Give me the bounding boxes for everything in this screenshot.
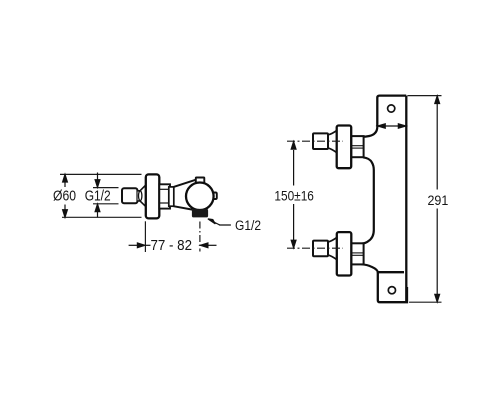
top inlet fitting	[351, 136, 363, 157]
bottom plate hole	[388, 287, 395, 294]
dim 77-82 right arrow	[200, 243, 216, 248]
svg-text:77 - 82: 77 - 82	[151, 238, 193, 254]
right tab	[212, 193, 217, 200]
bottom inlet fitting	[351, 243, 363, 264]
leader arrow to outlet	[208, 219, 231, 225]
top mounting plate	[377, 96, 406, 126]
top tab	[196, 178, 205, 184]
dim Ø60 top arrow	[63, 174, 68, 187]
top flare trumpet	[328, 130, 337, 152]
top escutcheon disc	[337, 126, 352, 169]
stem waist arc	[139, 191, 142, 201]
bottom escutcheon disc	[337, 232, 352, 275]
thermostat face circle	[186, 183, 214, 211]
dim G1/2 bottom extension line	[93, 203, 119, 205]
dim 77-82 left arrow	[129, 243, 151, 248]
dim G1/2 bottom arrow	[95, 204, 100, 217]
outlet (black)	[192, 209, 207, 217]
top fitting facet lines	[352, 145, 363, 147]
dim 291 line upper	[435, 96, 440, 190]
dim Ø60 top extension line	[60, 173, 142, 175]
bar profile above bottom plate	[362, 264, 378, 272]
hex nut facet lines	[160, 188, 170, 190]
handle knob	[122, 188, 137, 203]
bottom wall nut	[313, 241, 328, 257]
bottom mounting plate	[378, 271, 407, 302]
collar	[169, 187, 174, 206]
bottom flare trumpet	[328, 237, 337, 259]
dim 291 line lower	[435, 209, 440, 302]
svg-text:G1/2: G1/2	[85, 188, 111, 204]
dim G1/2 top extension line	[93, 187, 119, 189]
top wall nut	[313, 133, 328, 149]
svg-text:291: 291	[428, 192, 449, 208]
handle stem trumpet	[138, 185, 146, 206]
bar right edge	[405, 96, 407, 303]
escutcheon disc (side view)	[146, 174, 160, 218]
outlet centerline	[199, 222, 201, 252]
top plate hole	[388, 105, 395, 112]
bottom fitting facet lines	[352, 252, 363, 254]
bar profile below top plate	[362, 125, 378, 137]
svg-text:Ø60: Ø60	[53, 189, 76, 205]
dim 150±16 line lower	[291, 204, 296, 248]
dim 291 bottom extension line	[409, 301, 442, 303]
top inlet centerline	[287, 140, 343, 142]
svg-text:G1/2: G1/2	[235, 218, 261, 233]
bottom inlet centerline	[287, 247, 343, 249]
top plate bottom line with arrows	[378, 124, 406, 128]
dim Ø60 bottom extension line	[62, 216, 142, 218]
bar bulge between inlets	[362, 157, 374, 243]
dim 77-82 extension line	[144, 221, 146, 252]
dim G1/2 top arrow	[95, 173, 100, 188]
dim 150±16 line upper	[291, 142, 296, 186]
dim Ø60 bottom arrow	[63, 205, 68, 218]
dim 291 top extension line	[408, 95, 442, 97]
body funnel	[174, 180, 196, 210]
svg-text:150±16: 150±16	[274, 187, 314, 203]
hex nut behind disc	[159, 184, 170, 208]
